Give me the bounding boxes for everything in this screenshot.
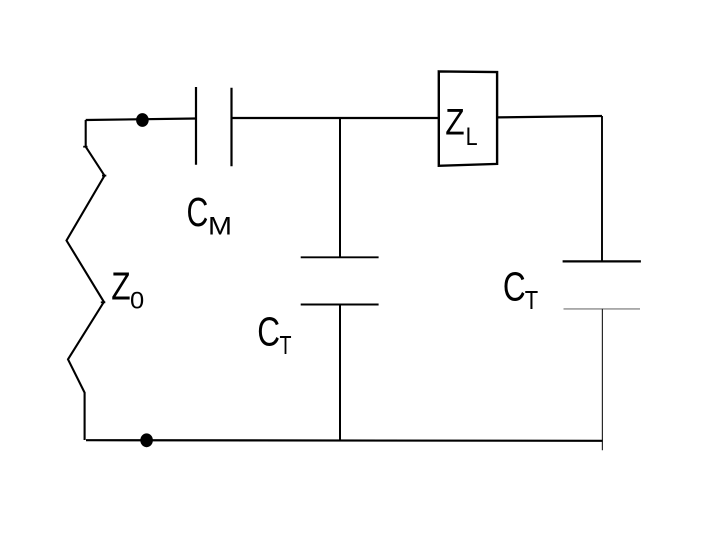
wire bottom horizontal xyxy=(86,439,602,442)
wire CM to ZL box xyxy=(232,117,439,119)
capacitor CM right plate xyxy=(230,88,232,167)
capacitor CT middle top plate xyxy=(301,256,379,258)
capacitor CM value label xyxy=(187,189,233,240)
zigzag vertex nub 3 xyxy=(101,301,106,303)
svg-text:C: C xyxy=(257,309,280,355)
wire middle branch vertical upper xyxy=(339,118,341,257)
svg-text:M: M xyxy=(208,213,232,241)
impedance ZL label xyxy=(445,102,477,151)
zigzag vertex nub 2 xyxy=(102,175,106,177)
wire right branch vertical upper xyxy=(601,116,603,261)
capacitor CT middle value label xyxy=(257,309,291,360)
wire top-left horizontal xyxy=(86,119,196,121)
capacitor CT middle bottom plate xyxy=(301,304,379,306)
capacitor CT right value label xyxy=(503,263,538,315)
svg-text:Z: Z xyxy=(445,102,464,143)
impedance Z0 zigzag body xyxy=(67,120,105,440)
impedance ZL box xyxy=(439,71,497,165)
impedance Z0 label xyxy=(111,265,144,314)
wire right branch vertical lower (thin) xyxy=(601,309,603,450)
capacitor CM left plate xyxy=(195,87,197,165)
svg-text:0: 0 xyxy=(130,287,144,314)
svg-text:Z: Z xyxy=(111,265,130,308)
svg-text:T: T xyxy=(525,287,538,315)
node B (bottom junction dot) xyxy=(140,433,153,447)
svg-text:C: C xyxy=(187,189,209,235)
svg-text:T: T xyxy=(280,332,292,360)
node A (top junction dot) xyxy=(136,113,149,127)
capacitor CT right top plate xyxy=(563,260,641,262)
wire middle branch vertical lower xyxy=(339,305,341,441)
capacitor CT right bottom plate (gray) xyxy=(564,308,641,310)
svg-text:C: C xyxy=(503,263,526,309)
svg-text:L: L xyxy=(466,124,478,151)
zigzag vertex nub 1 xyxy=(83,146,87,148)
wire ZL box to right branch xyxy=(497,116,602,117)
